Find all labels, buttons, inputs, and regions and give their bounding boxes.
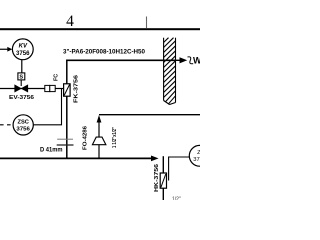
svg-text:W: W [193, 56, 200, 66]
svg-text:3756: 3756 [16, 51, 30, 57]
svg-text:4: 4 [66, 13, 74, 30]
svg-text:KV: KV [19, 44, 28, 50]
svg-text:3757: 3757 [193, 157, 200, 163]
signal dashed to ZSC [0, 124, 13, 126]
svg-text:FK-3756: FK-3756 [74, 75, 80, 103]
svg-text:ZSC: ZSC [17, 119, 29, 125]
valve EV-3756 [15, 85, 28, 92]
svg-text:EV-3756: EV-3756 [9, 95, 34, 101]
svg-text:FC: FC [54, 74, 60, 81]
svg-text:3"-PA6-20F008-10H12C-H50: 3"-PA6-20F008-10H12C-H50 [63, 50, 146, 56]
solenoid actuator S [18, 73, 25, 80]
instrument KV-3756 [12, 39, 33, 60]
svg-text:S: S [19, 75, 23, 81]
svg-text:1/2": 1/2" [172, 197, 181, 201]
vent cap [92, 137, 106, 145]
orifice plate ticks [57, 138, 73, 140]
valve stem [20, 80, 22, 86]
arrow to W [176, 59, 181, 61]
svg-text:ZI: ZI [197, 150, 200, 156]
instrument at right edge [189, 145, 210, 166]
wire fitting to FK valve [55, 88, 63, 90]
drawing border top line [0, 28, 200, 30]
wire ZSC to valve [33, 89, 61, 125]
instrument ZSC-3756 [13, 115, 33, 135]
pipe into EV valve [0, 88, 45, 90]
wall penetration (hatched) [164, 38, 176, 105]
main pipe horizontal [67, 59, 176, 61]
wire KV to solenoid box [21, 60, 23, 73]
svg-text:HK-3756: HK-3756 [154, 164, 160, 192]
valve FK-3756 [64, 84, 71, 96]
svg-text:FO-4286: FO-4286 [83, 126, 89, 150]
bottom pipe with arrow [0, 157, 152, 159]
break squiggle [188, 57, 194, 64]
svg-text:1 1/2"x1/2": 1 1/2"x1/2" [112, 126, 118, 148]
main pipe vertical [66, 60, 68, 84]
fitting (flanged coupling) [45, 85, 50, 91]
svg-text:D 41mm: D 41mm [40, 148, 63, 154]
bottom right vertical pipe [162, 156, 164, 200]
zone tick [146, 17, 148, 29]
vent line [98, 145, 100, 159]
valve HK-3756 [160, 173, 166, 188]
wire signal arrow into KV [0, 48, 9, 50]
upper right pipe [99, 114, 200, 116]
wire to edge instrument [169, 157, 190, 181]
svg-text:3756: 3756 [16, 126, 30, 132]
